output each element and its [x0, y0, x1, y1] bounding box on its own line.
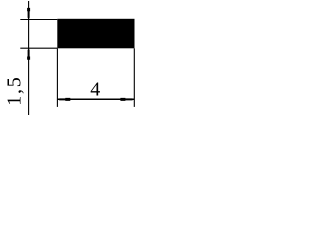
arrow down (top) [27, 8, 30, 20]
extension line right (4 dim) [133, 48, 135, 107]
vertical dimension line [28, 1, 30, 115]
svg-text:1,5: 1,5 [3, 75, 25, 105]
arrow up (bottom) [27, 48, 30, 60]
extension line bottom (1,5 dim) [20, 47, 57, 49]
profile bar (black filled rectangle) [57, 19, 134, 49]
extension line top (1,5 dim) [20, 19, 57, 21]
horizontal dimension line [57, 98, 134, 100]
arrow left [58, 98, 71, 101]
svg-text:4: 4 [90, 78, 100, 100]
arrow right [120, 98, 134, 101]
extension line left (4 dim) [56, 48, 58, 107]
